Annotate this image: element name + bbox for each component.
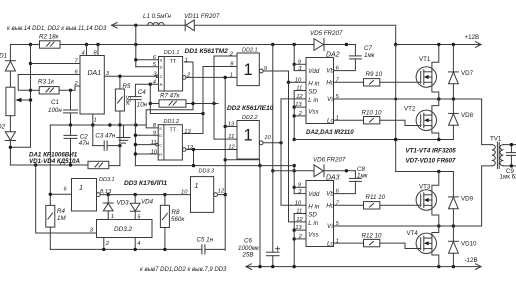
svg-text:100н: 100н <box>48 107 62 114</box>
svg-text:VT1-VT4 IRF3205: VT1-VT4 IRF3205 <box>406 148 457 155</box>
wire: bottom net y=249.4 <box>50 248 202 250</box>
svg-text:12: 12 <box>228 145 235 151</box>
svg-text:10: 10 <box>151 149 158 155</box>
svg-text:10: 10 <box>295 77 302 83</box>
svg-text:R8: R8 <box>172 209 180 216</box>
svg-text:VD10: VD10 <box>461 240 477 247</box>
svg-text:L in: L in <box>308 220 318 227</box>
wire: x=225.2 vertical (pin2 net down to C5) <box>224 77 226 250</box>
svg-text:DD3.3: DD3.3 <box>199 168 216 174</box>
inductor L1 <box>148 23 165 26</box>
svg-text:VD4: VD4 <box>141 199 154 206</box>
wire: R4 net vertical <box>49 125 51 205</box>
wire: DD3.1 out to DD3.3 in <box>100 194 190 196</box>
wire: Vdd feed vertical x=294.2 (rail to DA2 pins 9,3) <box>293 45 295 71</box>
transistor VT1 IRF3205 <box>416 45 439 100</box>
driver DA3 IR2110 box <box>306 181 334 247</box>
svg-text:11: 11 <box>296 209 302 215</box>
svg-text:C: C <box>160 74 163 79</box>
svg-text:SD: SD <box>308 212 317 219</box>
svg-text:12: 12 <box>296 217 303 223</box>
diode VD4 <box>130 195 140 220</box>
svg-text:R12 10: R12 10 <box>362 232 383 239</box>
svg-text:R2 18к: R2 18к <box>39 34 60 41</box>
ground symbol <box>117 125 130 143</box>
svg-text:10н: 10н <box>137 102 148 109</box>
wire: x=260 vertical down to bottom rail <box>259 166 261 267</box>
svg-text:Vss: Vss <box>308 232 318 239</box>
svg-text:Vss: Vss <box>308 109 318 116</box>
svg-text:13: 13 <box>228 122 235 128</box>
capacitor C7 1uF <box>334 45 362 71</box>
block DD3.2 <box>97 220 153 238</box>
svg-text:TT: TT <box>170 59 177 65</box>
svg-text:DA1: DA1 <box>88 70 102 77</box>
transformer TV1 <box>492 142 516 168</box>
svg-text:Vdd: Vdd <box>308 191 320 198</box>
wire: rail y=171.5 (VT3 drain) <box>396 171 454 173</box>
wire: C4 bottom bus corner to long wire y=165.6 <box>135 165 260 167</box>
svg-text:VD1: VD1 <box>0 53 7 60</box>
node: open arrow right (-12V) <box>476 264 482 270</box>
diode VD1 <box>5 61 15 87</box>
svg-text:R4: R4 <box>57 208 65 215</box>
svg-text:13: 13 <box>184 129 191 135</box>
svg-text:VT3: VT3 <box>419 184 431 191</box>
wire: DA1 pin6 jog <box>18 75 80 91</box>
potentiometer R1 (left edge, partially cut) <box>6 87 15 132</box>
svg-text:11: 11 <box>228 134 234 140</box>
diode VD10 <box>449 226 459 267</box>
svg-text:1: 1 <box>111 214 114 220</box>
svg-text:к выв.14 DD1, DD2 к выв.11,14: к выв.14 DD1, DD2 к выв.11,14 DD3 <box>7 26 107 32</box>
potentiometer wiper arrow <box>15 98 30 102</box>
DD2.2 output pin10 <box>259 141 281 145</box>
node: open arrow left (to pins 7 DD1,DD2 / 7,9 DD3) <box>246 264 252 270</box>
resistor R3 1k <box>31 87 60 94</box>
svg-text:DD3.2: DD3.2 <box>114 226 133 233</box>
DA3 pin 11 SD <box>294 213 306 215</box>
svg-text:SD: SD <box>308 89 317 96</box>
svg-text:VT2: VT2 <box>404 106 416 113</box>
svg-text:VD7: VD7 <box>461 70 474 77</box>
svg-text:D: D <box>160 65 163 70</box>
svg-text:VD9: VD9 <box>461 195 474 202</box>
DA2 Vs pin5 rail y=99 <box>334 98 482 100</box>
wire: left bottom net y=165 <box>10 164 70 166</box>
wire: to DD3.2 pin3 <box>36 165 97 233</box>
NOR gate DD2.1 (K561LE10) <box>237 53 259 86</box>
wire: R7 left net down to DD1.2 pin13 <box>150 84 203 133</box>
svg-text:TT: TT <box>170 128 177 134</box>
wire: DA1 pins 4,8 to rail <box>87 45 99 56</box>
wire: DD2.2 pin13 feed <box>225 126 237 128</box>
transistor VT3 <box>416 172 439 227</box>
svg-text:1: 1 <box>336 238 339 244</box>
svg-text:10: 10 <box>295 200 302 206</box>
svg-text:47н: 47н <box>79 140 90 147</box>
wire: DD1.1 pin2 (inv) to DD2.1 pin1 and down <box>182 76 237 80</box>
wire: TV1 primary connections <box>482 99 492 226</box>
svg-text:VD8: VD8 <box>461 112 474 119</box>
wire: VT4 gate jog <box>405 243 421 248</box>
svg-text:DD1 К561ТМ2: DD1 К561ТМ2 <box>185 48 229 55</box>
svg-text:H in: H in <box>308 203 320 210</box>
DA2 pins 9,3 Vdd <box>294 64 306 70</box>
svg-text:DD1.2: DD1.2 <box>164 119 180 125</box>
wire: DA2 SD/Vss vertical to VT2 source rail <box>293 91 295 140</box>
DA3 pins 9,3 Vdd <box>294 187 306 193</box>
svg-text:Lo: Lo <box>327 117 334 124</box>
svg-text:DA3: DA3 <box>326 175 340 182</box>
DA2 Lo pin1 / resistor R10 10 <box>334 117 406 124</box>
IC DA1 KR1006VI1 (555) box <box>80 56 104 115</box>
svg-text:к выв7 DD1,DD2 к выв.7,9 DD3: к выв7 DD1,DD2 к выв.7,9 DD3 <box>140 267 227 273</box>
wire: DD1.2 D,C,R feeds from bus <box>135 135 158 154</box>
svg-text:1: 1 <box>79 185 83 192</box>
DD1.2 internal letters <box>159 126 162 157</box>
svg-text:1: 1 <box>195 183 199 190</box>
svg-text:13: 13 <box>295 102 302 108</box>
DA2 pin 10 Hin from DD2.1 <box>289 81 307 83</box>
wire: top rail y=44.5 (Vcc rail across schematic) <box>10 45 346 62</box>
svg-text:R7 47к: R7 47к <box>160 93 181 100</box>
svg-text:Vdd: Vdd <box>308 68 320 75</box>
capacitor C4 10n <box>130 97 141 166</box>
svg-text:1: 1 <box>94 118 97 124</box>
svg-text:25В: 25В <box>242 251 254 258</box>
diode VD2 <box>5 132 15 165</box>
svg-text:11: 11 <box>151 140 157 146</box>
svg-text:1: 1 <box>185 57 188 63</box>
svg-text:12: 12 <box>187 145 194 151</box>
wire: bottom common rail <box>246 266 481 268</box>
capacitor C1 100n <box>64 90 78 125</box>
wire: VT2 gate jog <box>405 120 421 125</box>
svg-text:Ho: Ho <box>326 202 334 209</box>
svg-text:R3 1к: R3 1к <box>38 79 55 86</box>
DA2 pin 12 Lin from DD2.2 <box>281 98 306 100</box>
inverter DD3.3 (K176LP1) <box>191 177 214 213</box>
svg-text:C7: C7 <box>364 45 372 52</box>
svg-text:DD1.1: DD1.1 <box>164 50 180 56</box>
wire: top supply line to DD chips <box>112 25 396 44</box>
svg-text:13: 13 <box>295 225 302 231</box>
capacitor C3 47n <box>93 125 120 150</box>
wire: corner piece near DD3.3 out to y=165.6 <box>225 160 259 166</box>
wire: DD2.2 out net down to DA3 Hin <box>281 99 306 205</box>
svg-text:C4: C4 <box>138 89 146 96</box>
svg-text:1мк: 1мк <box>364 52 376 59</box>
resistor R6 56k <box>71 161 109 168</box>
NOR gate DD2.2 (K561LE10) <box>237 121 259 160</box>
wire: bus x=135.8 from rail down to DD1.1 S,D <box>135 25 137 67</box>
wire: DD3.2 pins 2,4 to bottom net <box>104 238 135 250</box>
transistor VT2 <box>416 99 439 140</box>
wire: DA1 pin7 <box>31 63 81 65</box>
svg-text:12: 12 <box>218 188 225 194</box>
diode VD3 <box>103 195 113 220</box>
svg-text:DD2.1: DD2.1 <box>242 48 258 54</box>
DA2 pins 13,2 Vss <box>294 107 306 116</box>
wire: DD2.1 out net down to DA3 Lin <box>289 82 307 222</box>
svg-text:VT4: VT4 <box>407 230 419 237</box>
capacitor C6 1000u 25V electrolytic <box>267 247 280 267</box>
diode VD8 <box>449 99 459 140</box>
svg-text:R: R <box>159 152 162 157</box>
diode VD9 <box>449 172 459 227</box>
wire: DD1.2 Q13 net up to DD2.1 pin8 <box>203 67 237 114</box>
svg-text:12: 12 <box>296 94 303 100</box>
svg-text:C5 1н: C5 1н <box>197 236 214 243</box>
wire: left net vertical x=30.5 (R2 left / pin7 / wiper) <box>10 45 30 148</box>
resistor R7 47k <box>150 100 218 107</box>
svg-text:4: 4 <box>82 50 85 56</box>
resistor R4 1M (vertical) <box>46 205 55 249</box>
wire: R3 to DA1 pin2 with C1 tap <box>59 86 80 90</box>
svg-text:4: 4 <box>137 241 140 247</box>
wire: R5/C3 vertical down to R6 <box>109 125 120 166</box>
DD1.2 C input circle <box>156 143 159 146</box>
resistor R8 560k (vertical) <box>160 195 169 250</box>
wire: gnd bus y=125 <box>50 124 146 126</box>
svg-text:DA2: DA2 <box>326 52 340 59</box>
svg-text:VD11 FR207: VD11 FR207 <box>184 13 220 20</box>
svg-text:1: 1 <box>244 61 253 79</box>
svg-text:11: 11 <box>296 86 302 92</box>
svg-text:R9 10: R9 10 <box>366 71 383 78</box>
driver DA2 IR2110 box <box>306 58 334 124</box>
svg-text:10: 10 <box>181 189 188 195</box>
wire: DA1 pin1 down to bus <box>92 114 94 125</box>
svg-text:C3 47н: C3 47н <box>95 133 116 140</box>
svg-text:1мк: 1мк <box>357 173 369 180</box>
wire: x=214 vertical R7 net to DD2.1 pin2 / DD2.2 pin11 <box>214 56 237 139</box>
svg-text:Lo: Lo <box>327 240 334 247</box>
svg-text:1М: 1М <box>57 215 66 222</box>
svg-text:VD5 FR207: VD5 FR207 <box>310 30 343 37</box>
svg-text:VD7-VD10 FR607: VD7-VD10 FR607 <box>406 158 456 165</box>
svg-text:R5: R5 <box>123 83 131 90</box>
svg-text:Vs: Vs <box>327 223 334 230</box>
svg-text:VD3: VD3 <box>117 200 130 207</box>
wire: DD3.1 input from R4 net <box>50 193 71 195</box>
wire: y=165.6 extension to mega vertical <box>260 165 294 167</box>
DA2 pin 11 SD <box>294 90 306 92</box>
wire: +12 rail arrow <box>396 42 481 48</box>
junction dots on top rails <box>29 24 398 47</box>
svg-text:1: 1 <box>336 115 339 121</box>
wire: DA3 SD/Vss vertical to bottom rail <box>293 214 295 267</box>
diode VD5 FR207 <box>314 39 324 51</box>
DA3 Ho pin7 / resistor R11 10 <box>334 202 421 209</box>
svg-text:R10 10: R10 10 <box>362 109 383 116</box>
DD2.1 output pin9 <box>259 69 288 82</box>
transistor VT4 <box>416 226 439 267</box>
diode VD6 FR207 <box>273 165 356 177</box>
wire: DD1.2 pin12 output to DD2.2 pin12 <box>182 148 237 166</box>
svg-text:H in: H in <box>308 80 320 87</box>
svg-text:DD2.2: DD2.2 <box>242 115 258 121</box>
svg-text:1: 1 <box>230 72 233 78</box>
wire: center vertical x=395.7 <box>395 45 397 172</box>
svg-text:Vs: Vs <box>327 96 334 103</box>
wire: DD1.1 R pin4 to C4 node <box>135 84 158 96</box>
svg-text:4: 4 <box>153 80 156 86</box>
svg-text:Ho: Ho <box>326 79 334 86</box>
diode VD7 <box>449 45 459 100</box>
svg-text:+12В: +12В <box>465 34 480 41</box>
DD1.1 C input circle <box>156 75 159 78</box>
wire: Vcc vertical x=272.8 down to C6 <box>272 45 274 253</box>
wire: DA3 Vdd feed vertical <box>293 166 295 194</box>
svg-text:1мк 63В: 1мк 63В <box>500 173 516 180</box>
wire: DA1 pin3 output to DD1.1 C <box>104 75 157 77</box>
svg-text:VD6 FR207: VD6 FR207 <box>313 156 346 163</box>
wire: rail y=139.5 (VT2 source) <box>294 139 453 141</box>
DA3 Lo pin1 / resistor R12 10 <box>334 239 406 246</box>
svg-text:S: S <box>159 126 162 131</box>
DD1.1 internal letters <box>160 58 163 87</box>
svg-text:Vb: Vb <box>326 191 334 198</box>
svg-text:VD2: VD2 <box>0 124 6 131</box>
DA2 Vb pin6 / Ho pin7 / resistor R9 10 <box>334 79 421 86</box>
svg-text:D: D <box>159 133 162 138</box>
svg-text:L in: L in <box>308 97 318 104</box>
diode VD11 FR207 <box>185 20 194 31</box>
svg-text:560к: 560к <box>171 216 185 223</box>
svg-text:S: S <box>160 58 163 63</box>
svg-text:DD2 К561ЛЕ10: DD2 К561ЛЕ10 <box>227 105 274 112</box>
svg-text:TV1: TV1 <box>490 136 502 143</box>
node: open arrow to pins 14 DD1,DD2 / 11,14 DD3 <box>112 23 118 29</box>
svg-text:L1 0.5мГн: L1 0.5мГн <box>143 13 172 20</box>
svg-text:R11 10: R11 10 <box>366 194 386 201</box>
capacitor C2 47n <box>64 125 77 165</box>
capacitor C5 1n <box>202 245 225 254</box>
svg-text:DA2,DA3 IR2110: DA2,DA3 IR2110 <box>306 129 354 136</box>
svg-text:C: C <box>159 142 162 147</box>
wire: DD1.1 pin1 loop to DD1.2 S <box>146 62 193 128</box>
svg-text:С6: С6 <box>244 238 252 245</box>
flip-flop DD1.1 (K561TM2) box <box>159 57 183 92</box>
svg-text:8,13: 8,13 <box>100 189 112 195</box>
svg-text:VT1: VT1 <box>419 56 431 63</box>
resistor R5 56k (vertical) <box>115 76 124 125</box>
svg-text:10: 10 <box>264 135 271 141</box>
svg-text:Vb: Vb <box>326 68 334 75</box>
capacitor C8 1uF <box>334 171 362 194</box>
svg-text:1: 1 <box>244 126 253 144</box>
svg-text:DD3.1: DD3.1 <box>99 177 115 183</box>
svg-text:DD3 К176ЛП1: DD3 К176ЛП1 <box>124 180 167 187</box>
inverter DD3.1 (K176LP1) <box>72 179 97 212</box>
capacitor C9 1uF 63V <box>506 153 516 156</box>
flip-flop DD1.2 (K561TM2) box <box>158 125 182 160</box>
svg-text:VD1-VD4 КД510А: VD1-VD4 КД510А <box>29 158 80 165</box>
svg-text:C1: C1 <box>51 99 59 106</box>
svg-text:-12В: -12В <box>465 257 478 264</box>
DA3 Vs pin5 rail y=226 <box>334 225 482 227</box>
svg-text:56к: 56к <box>124 96 130 107</box>
resistor R2 18k <box>40 41 61 48</box>
DA3 pins 13,2 Vss <box>294 230 306 239</box>
svg-text:R: R <box>160 82 163 87</box>
